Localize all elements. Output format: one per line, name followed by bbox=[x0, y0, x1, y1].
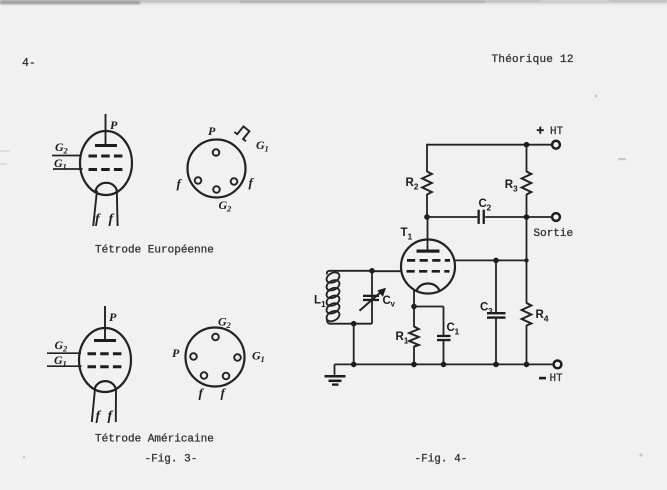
ground symbol bbox=[325, 376, 346, 384]
junction dot tank top / Cv bbox=[369, 268, 375, 274]
svg-text:-Fig. 3-: -Fig. 3- bbox=[145, 454, 198, 466]
terminal Sortie bbox=[552, 213, 560, 221]
label G2 (american tube) bbox=[55, 338, 69, 354]
wire R1 top bbox=[413, 307, 415, 328]
label C2 bbox=[479, 198, 492, 213]
socket pin f right (european) bbox=[231, 178, 238, 185]
cathode arc T1 bbox=[417, 284, 440, 292]
grid G1 dashes (european) bbox=[89, 168, 124, 171]
socket pin G2 (bottom, european) bbox=[213, 186, 220, 193]
wire node to C2 bbox=[427, 216, 477, 218]
wire C1 column top bbox=[443, 307, 445, 336]
svg-text:Tétrode Américaine: Tétrode Américaine bbox=[95, 434, 214, 446]
plate anode bar (american) bbox=[94, 339, 116, 342]
svg-text:2: 2 bbox=[63, 146, 69, 156]
label C3 bbox=[480, 302, 493, 317]
faint scan specks bbox=[0, 95, 643, 459]
wire cathode node to C1 bbox=[414, 306, 444, 308]
inductor L1 bbox=[325, 270, 342, 323]
wire R3 column top bbox=[526, 145, 528, 172]
junction dot tank bottom bbox=[351, 321, 357, 327]
tube européenne envelope bbox=[80, 131, 132, 195]
svg-text:L: L bbox=[314, 295, 321, 307]
label -HT bbox=[539, 373, 563, 385]
plate anode bar T1 bbox=[417, 250, 440, 253]
variable capacitor Cv arrow bbox=[360, 288, 387, 311]
scan top edge band bbox=[0, 0, 667, 5]
capacitor C3 bbox=[487, 312, 506, 319]
grid G1 lead (european) bbox=[53, 168, 83, 170]
grid G2 lead (european) bbox=[52, 155, 82, 157]
socket pin G1 (right, american) bbox=[234, 354, 241, 361]
resistor R2 bbox=[422, 172, 432, 195]
grid G2 dashes (european) bbox=[89, 155, 124, 158]
tube T1 envelope bbox=[401, 240, 455, 294]
variable capacitor Cv plates bbox=[363, 295, 379, 301]
svg-text:2: 2 bbox=[414, 182, 419, 192]
wire C3 column bottom bbox=[495, 318, 497, 364]
svg-text:T: T bbox=[401, 227, 408, 239]
plate P lead (european) bbox=[105, 114, 107, 146]
grid G1 dashes (american) bbox=[88, 365, 123, 368]
junction dot rail / tank drop bbox=[351, 362, 357, 368]
junction dot rail / R4 bbox=[524, 362, 530, 368]
wire plate lead T1 bbox=[427, 217, 429, 251]
junction dot screen wire / R4 column bbox=[524, 258, 528, 262]
junction dot cathode node bbox=[411, 304, 417, 310]
filament lead left (european) bbox=[93, 191, 97, 227]
socket pin G2 (top, american) bbox=[212, 334, 219, 341]
cathode filament arc (american) bbox=[95, 381, 117, 390]
capacitor C1 bbox=[437, 335, 451, 341]
wire tank top bbox=[329, 270, 372, 272]
wire R2 bottom to node bbox=[426, 194, 428, 217]
junction dot top rail / R3 bbox=[524, 142, 530, 148]
svg-text:1: 1 bbox=[404, 336, 409, 346]
wire screen to C3/R4 bbox=[455, 259, 527, 261]
terminal +HT bbox=[552, 141, 560, 149]
wire C2 to Sortie bbox=[485, 216, 552, 218]
resistor R1 bbox=[409, 327, 419, 347]
terminal -HT bbox=[554, 361, 562, 369]
label G1 (american tube) bbox=[54, 353, 67, 369]
svg-text:1: 1 bbox=[63, 162, 67, 172]
plate anode bar (european) bbox=[95, 144, 117, 147]
label R1 bbox=[396, 331, 409, 346]
svg-text:v: v bbox=[391, 300, 396, 309]
wire R4 column upper bbox=[526, 260, 528, 303]
junction dot rail / C3 bbox=[493, 362, 499, 368]
label G1 (european tube) bbox=[54, 156, 67, 172]
svg-text:HT: HT bbox=[550, 373, 564, 385]
svg-text:2: 2 bbox=[226, 204, 232, 214]
junction dot rail / C1 bbox=[441, 362, 447, 368]
european socket circle bbox=[188, 140, 246, 198]
grid G1 dashes T1 bbox=[407, 270, 450, 273]
wire R1 bottom to rail bbox=[413, 346, 415, 364]
label Cv bbox=[383, 295, 396, 309]
socket pin f bottom-right (american) bbox=[223, 373, 230, 380]
ground stub bbox=[334, 364, 336, 374]
svg-text:P: P bbox=[172, 346, 180, 360]
resistor R4 bbox=[522, 303, 532, 326]
junction dot Sortie rail / R3 column bbox=[524, 214, 530, 220]
label f f (european tube) bbox=[95, 212, 115, 227]
svg-text:HT: HT bbox=[550, 126, 564, 138]
svg-text:Sortie: Sortie bbox=[534, 228, 574, 240]
svg-text:1: 1 bbox=[321, 299, 326, 309]
svg-text:Tétrode Européenne: Tétrode Européenne bbox=[95, 245, 214, 257]
label G2 (european tube) bbox=[55, 140, 69, 156]
svg-text:P: P bbox=[109, 310, 117, 324]
grid G2 lead (american) bbox=[47, 352, 81, 354]
svg-text:P: P bbox=[208, 124, 216, 138]
wire tank bottom bbox=[329, 323, 372, 325]
filament lead right (european) bbox=[116, 191, 119, 227]
wire tank to ground rail bbox=[353, 324, 355, 365]
socket pin P (left, american) bbox=[190, 353, 197, 360]
grid G2 dashes T1 bbox=[407, 259, 450, 262]
svg-text:3: 3 bbox=[488, 306, 493, 316]
svg-text:1: 1 bbox=[265, 144, 269, 154]
svg-text:2: 2 bbox=[226, 320, 232, 330]
svg-text:2: 2 bbox=[62, 344, 68, 354]
label R3 bbox=[505, 179, 518, 194]
svg-text:-Fig. 4-: -Fig. 4- bbox=[415, 454, 468, 466]
label C1 bbox=[447, 322, 460, 337]
wire C3 column top bbox=[495, 260, 497, 313]
junction node (R2 / C2 / plate) bbox=[424, 214, 430, 220]
svg-text:3: 3 bbox=[513, 184, 518, 194]
label +HT bbox=[537, 123, 564, 139]
svg-text:1: 1 bbox=[261, 354, 265, 364]
junction dot rail / R1 bbox=[411, 362, 417, 368]
wire top rail to +HT bbox=[427, 144, 552, 146]
label R2 bbox=[406, 177, 419, 192]
label R4 bbox=[536, 309, 549, 324]
svg-text:P: P bbox=[110, 118, 118, 132]
junction dot screen wire / C3 bbox=[493, 258, 499, 264]
svg-text:1: 1 bbox=[455, 327, 460, 337]
socket pin f bottom-left (american) bbox=[201, 372, 208, 379]
svg-text:1: 1 bbox=[63, 359, 67, 369]
svg-text:2: 2 bbox=[487, 203, 492, 213]
capacitor C2 bbox=[478, 210, 485, 224]
label G1 (european socket) bbox=[256, 138, 269, 154]
plate P lead (american) bbox=[104, 306, 106, 341]
resistor R3 bbox=[522, 172, 532, 195]
wire cathode lead bbox=[413, 290, 415, 307]
grid G1 lead (american) bbox=[47, 365, 82, 367]
label G2 (american socket) bbox=[218, 315, 232, 331]
wire Cv column bbox=[371, 271, 373, 324]
svg-text:Théorique 12: Théorique 12 bbox=[492, 54, 574, 66]
wire C1 column bottom bbox=[443, 341, 445, 365]
svg-text:1: 1 bbox=[408, 232, 413, 242]
wire bottom rail bbox=[335, 363, 554, 365]
svg-text:4: 4 bbox=[544, 314, 549, 324]
socket pin P (top, european) bbox=[213, 149, 220, 156]
socket pin f left (european) bbox=[195, 177, 202, 184]
tube américaine envelope bbox=[79, 328, 131, 392]
top-cap pulse symbol G1 (european socket) bbox=[234, 124, 252, 141]
wire R3 bottom through Sortie node down to screen wire bbox=[526, 194, 528, 260]
wire left column top bbox=[426, 144, 428, 172]
label f f (american tube) bbox=[96, 409, 114, 424]
cathode filament arc (european) bbox=[96, 183, 118, 192]
svg-text:+: + bbox=[537, 123, 545, 138]
label T1 bbox=[401, 227, 413, 242]
svg-text:4-: 4- bbox=[22, 57, 36, 70]
filament lead left (american) bbox=[92, 389, 95, 422]
wire R4 bottom to rail bbox=[526, 325, 528, 364]
grid G2 dashes (american) bbox=[88, 352, 123, 355]
filament lead right (american) bbox=[115, 389, 117, 422]
label L1 bbox=[314, 295, 326, 310]
wire grid to tank bbox=[372, 270, 402, 272]
label G1 (american socket) bbox=[252, 349, 265, 365]
american socket circle bbox=[186, 328, 245, 387]
label G2 (european socket) bbox=[219, 198, 233, 214]
